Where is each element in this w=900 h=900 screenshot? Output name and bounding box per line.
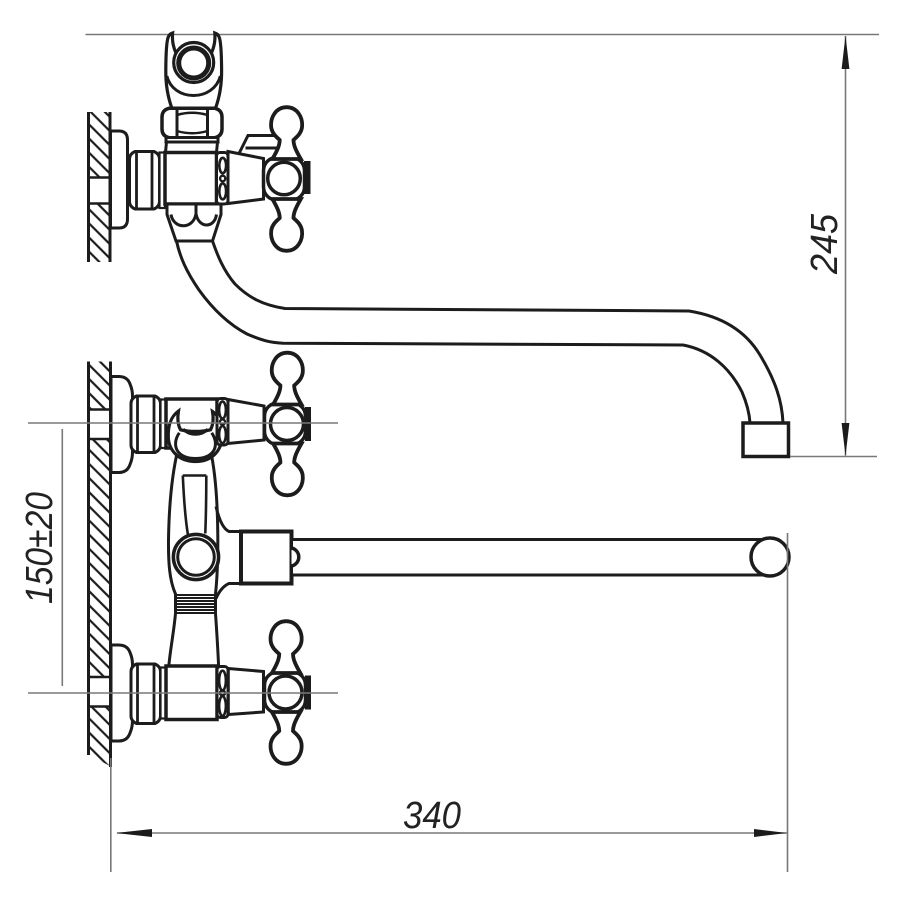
washer between nut and body xyxy=(160,153,166,209)
cone bottom valve xyxy=(228,669,263,715)
arrow left xyxy=(116,829,152,837)
bump at pipe joint xyxy=(292,548,299,566)
block xyxy=(241,532,292,584)
body top valve xyxy=(166,399,217,448)
svg-text:150±20: 150±20 xyxy=(19,492,61,604)
dim line 245 xyxy=(845,36,847,456)
cone top valve xyxy=(228,400,264,444)
hub bottom valve xyxy=(265,672,306,713)
neck inner lines xyxy=(183,476,207,535)
knurl band xyxy=(176,595,216,613)
extension line top (cradle top level) xyxy=(86,34,880,36)
lobes bottom valve xyxy=(271,621,302,673)
swivel circle inner xyxy=(178,539,215,576)
arrow down xyxy=(842,423,850,456)
swivel circle outer xyxy=(173,534,218,579)
shower cradle egg body with horns xyxy=(166,33,222,109)
cradle ring inner (thick) xyxy=(179,48,209,78)
spout connection nut (scalloped) xyxy=(167,204,221,241)
washer bottom valve xyxy=(161,668,167,719)
lobes top valve xyxy=(272,353,303,405)
bonnet ridged strip (top view) xyxy=(217,153,229,205)
cradle cup rim arc xyxy=(167,76,221,96)
pipe top edge xyxy=(293,538,766,541)
body bottom valve xyxy=(166,666,217,720)
washer under top nut xyxy=(166,138,218,143)
handle bottom lobe xyxy=(271,199,302,251)
top hex nut xyxy=(162,108,222,137)
dim line 150±20 xyxy=(61,429,63,686)
S-spout inner/upper edge xyxy=(213,241,784,423)
bonnet strip top valve xyxy=(217,399,228,446)
extension line left (wall face) xyxy=(110,758,112,872)
extension line at nozzle bottom xyxy=(790,456,877,458)
handle hub circle xyxy=(268,162,301,195)
arrow right xyxy=(754,829,787,837)
S-spout outer/lower edge xyxy=(177,241,751,423)
handle hub (top view) xyxy=(264,158,305,201)
extension line right (pipe end) xyxy=(787,533,789,872)
hub top valve xyxy=(265,403,306,445)
flange top valve xyxy=(111,377,133,473)
wall flange (top view) xyxy=(111,131,128,228)
valve body (top view) xyxy=(165,153,217,205)
S-spout tube fill xyxy=(177,243,783,423)
handle end cap xyxy=(305,162,311,194)
wall (top view) xyxy=(89,112,111,262)
hex nut bottom valve xyxy=(131,664,161,724)
cradle ring outer xyxy=(174,43,214,83)
hub end cap top valve xyxy=(306,408,311,441)
spout nozzle xyxy=(743,423,789,457)
arrow up xyxy=(842,36,850,70)
bonnet cone (top view) xyxy=(228,152,264,204)
pipe xyxy=(293,540,770,576)
washer top valve xyxy=(161,400,167,449)
block fillets xyxy=(216,507,241,599)
handle top lobe xyxy=(271,107,302,159)
wall-side hex nut xyxy=(130,152,160,210)
hex nut top valve xyxy=(131,396,161,453)
wall (bottom view) xyxy=(89,362,111,768)
hub circle bottom valve xyxy=(269,676,302,709)
flange bottom valve xyxy=(111,645,133,741)
chamfer band above cone xyxy=(238,136,277,156)
bonnet strip bottom valve xyxy=(217,667,228,718)
pipe end cap xyxy=(751,538,789,576)
central vase body xyxy=(168,449,218,666)
hub end cap bottom valve xyxy=(306,676,311,709)
svg-text:340: 340 xyxy=(403,795,461,837)
centerline top valve xyxy=(28,422,338,424)
hub circle top valve xyxy=(271,408,304,441)
horseshoe clip xyxy=(168,411,222,462)
svg-text:245: 245 xyxy=(804,213,846,275)
pipe bottom edge xyxy=(293,574,766,577)
dim line 340 xyxy=(117,832,787,834)
neck to body xyxy=(166,142,218,153)
centerline bottom valve xyxy=(28,692,338,694)
